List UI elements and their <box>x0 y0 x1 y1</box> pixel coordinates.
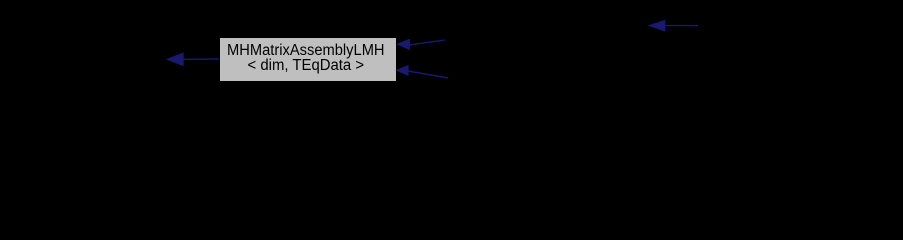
edge arrow to base class (left) <box>167 53 219 66</box>
node MHMatrixAssemblyLMH< dim, TEqData > <box>220 38 397 82</box>
edge arrow from derived class (upper right) <box>398 39 445 49</box>
edge arrow from derived class (lower right) <box>397 66 448 78</box>
edge arrow between hidden nodes (top right) <box>649 20 698 31</box>
svg-text:< dim, TEqData >: < dim, TEqData > <box>248 57 365 74</box>
